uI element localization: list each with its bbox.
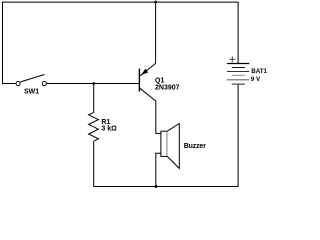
svg-text:2N3907: 2N3907 (155, 85, 180, 92)
svg-text:3 kΩ: 3 kΩ (101, 126, 117, 133)
svg-text:Buzzer: Buzzer (184, 143, 206, 150)
svg-text:Q1: Q1 (155, 77, 164, 84)
svg-text:9 V: 9 V (251, 76, 261, 83)
svg-text:BAT1: BAT1 (251, 68, 267, 75)
svg-text:SW1: SW1 (24, 89, 39, 96)
